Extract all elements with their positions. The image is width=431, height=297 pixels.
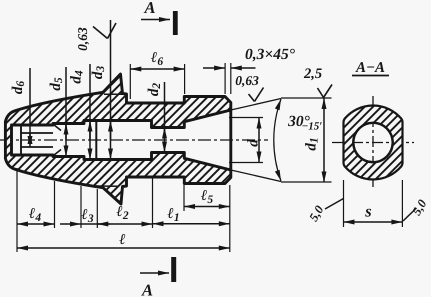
svg-text:−15′: −15′ <box>302 121 323 133</box>
d3 dimension <box>90 20 111 160</box>
roughness 2,5 <box>303 66 332 98</box>
bottom extension lines <box>16 168 18 252</box>
section arrow A bottom <box>140 257 176 297</box>
svg-text:0,3×45°: 0,3×45° <box>245 46 296 63</box>
d6 dimension <box>10 68 30 147</box>
d4 dimension <box>69 64 91 160</box>
thread lines in socket <box>21 132 53 134</box>
svg-text:ℓ: ℓ <box>119 232 125 248</box>
bore chamfer marks <box>54 125 62 131</box>
section A-A outer with flats <box>344 106 403 180</box>
s dimension <box>344 180 403 227</box>
5,0 left <box>307 199 344 224</box>
d5 dimension <box>48 67 66 157</box>
section A-A centerlines <box>372 96 374 190</box>
part body (section, hatched) <box>5 74 230 204</box>
section arrow A top <box>141 0 178 35</box>
cone angle arc 30 <box>274 99 281 181</box>
d2 dimension <box>146 82 165 153</box>
l2 dimension <box>97 204 152 224</box>
d dimension <box>229 118 263 163</box>
svg-text:0,63: 0,63 <box>235 73 259 88</box>
l6 dimension <box>130 50 184 99</box>
l5 dimension <box>184 188 230 207</box>
svg-text:2,5: 2,5 <box>303 66 322 82</box>
svg-text:d: d <box>246 139 262 147</box>
svg-text:A−A: A−A <box>355 60 385 76</box>
d1 dimension <box>304 98 325 183</box>
l4 dimension <box>17 206 55 224</box>
roughness 0,63 at cone <box>235 73 263 102</box>
centerline main axis <box>0 139 268 141</box>
5,0 right <box>403 197 430 221</box>
svg-text:0,63: 0,63 <box>75 27 90 51</box>
cone extension lines <box>231 99 281 111</box>
svg-text:s: s <box>364 202 371 221</box>
svg-text:A: A <box>141 281 153 297</box>
hole circle <box>353 123 392 162</box>
svg-text:A: A <box>143 0 155 17</box>
l3 dimension <box>60 207 97 225</box>
l dimension <box>17 232 230 248</box>
roughness 0,63 at barb <box>75 23 116 51</box>
chamfer dim 0,3x45 <box>203 46 296 94</box>
barb base lines <box>104 93 123 95</box>
l1 dimension <box>153 206 230 224</box>
internal vertical line <box>95 121 97 160</box>
